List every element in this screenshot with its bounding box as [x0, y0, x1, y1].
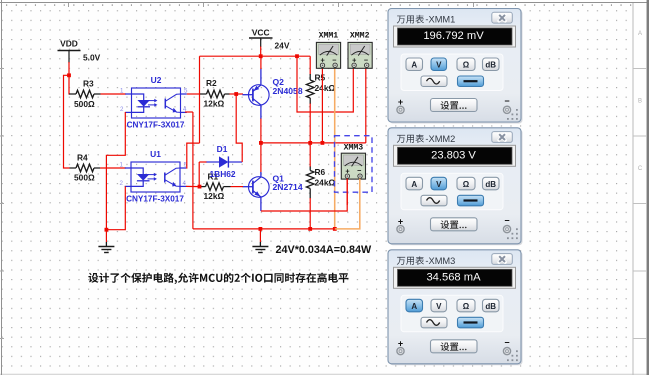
svg-text:12kΩ: 12kΩ [204, 191, 225, 201]
node ground rail center [259, 227, 263, 231]
svg-text:4: 4 [183, 180, 187, 187]
wire to ground symbol right [259, 229, 261, 242]
svg-text:CNY17F-3X017: CNY17F-3X017 [127, 120, 185, 129]
svg-text:XMM1: XMM1 [319, 32, 339, 41]
resistor R5 24kΩ [306, 56, 335, 143]
wire D1 cathode to Q2 base node [236, 94, 242, 162]
node VCC XMM2 branch [295, 54, 299, 58]
svg-text:+: + [398, 216, 403, 226]
wire U2 pin4 to ground rail [185, 111, 193, 113]
wire ground rail [193, 228, 335, 230]
svg-text:R6: R6 [315, 167, 326, 177]
svg-text:2: 2 [120, 180, 124, 187]
node Q2 emitter rail [259, 141, 263, 145]
svg-text:D1: D1 [217, 144, 228, 154]
svg-text:500Ω: 500Ω [74, 173, 95, 183]
svg-text:A: A [411, 302, 417, 311]
wire Q2 emitter to VCC rail [260, 69, 262, 85]
wire VDD branch to R4 [64, 75, 70, 168]
svg-text:VDD: VDD [60, 38, 78, 48]
svg-text:Ω: Ω [463, 61, 470, 70]
label annotation chinese [88, 273, 348, 285]
wire U2 pin2 to ground [106, 112, 125, 230]
svg-text:R2: R2 [206, 78, 217, 88]
svg-text:1: 1 [120, 162, 124, 169]
svg-text:V: V [436, 180, 442, 189]
svg-text:A: A [411, 61, 417, 70]
svg-text:V: V [436, 302, 442, 311]
svg-text:1: 1 [120, 88, 124, 95]
wire R1 to Q1 base [231, 186, 244, 188]
wire VCC stub [260, 47, 262, 57]
power VDD 5.0V [58, 38, 101, 63]
multimeter icon XMM3 [341, 143, 365, 179]
ground right [252, 242, 268, 253]
svg-text:dB: dB [485, 61, 496, 70]
resistor R4 500Ω [70, 153, 101, 183]
wire U2 pin5 to R2 [187, 93, 200, 95]
diode D1 1BH62 [206, 144, 242, 179]
svg-text:A: A [411, 180, 417, 189]
svg-text:−: − [504, 96, 509, 106]
resistor R6 24kΩ [306, 143, 335, 229]
multimeter panel XMM2 [388, 128, 523, 246]
wire XMM1 minus down (orange) [334, 68, 336, 230]
svg-text:XMM3: XMM3 [344, 143, 364, 152]
wire U1 pin4 to node [186, 185, 200, 187]
multimeter panel XMM1 [388, 9, 523, 124]
svg-text:U2: U2 [151, 75, 162, 85]
multimeter icon XMM1 [316, 32, 340, 69]
wire XMM3 plus to Q1 emitter [346, 179, 348, 206]
svg-text:24V*0.034A=0.84W: 24V*0.034A=0.84W [276, 244, 373, 256]
transistor Q2 2N4058 [242, 77, 302, 105]
svg-text:dB: dB [485, 180, 496, 189]
wire mid rail [261, 142, 366, 144]
svg-text:C: C [638, 166, 643, 172]
svg-text:34.568 mA: 34.568 mA [426, 271, 481, 283]
svg-text:196.792 mV: 196.792 mV [423, 30, 484, 42]
node VDD junction [67, 73, 71, 77]
svg-text:U1: U1 [150, 149, 161, 159]
resistor R2 12kΩ [200, 78, 230, 109]
svg-text:5.0V: 5.0V [83, 53, 101, 63]
wire Q2 collector down [260, 105, 262, 119]
svg-text:−: − [504, 337, 509, 347]
svg-text:+: + [398, 338, 403, 348]
multimeter icon XMM2 [348, 32, 372, 69]
node XMM1 plus rail [321, 141, 325, 145]
wire R4 to U1 pin1 [100, 167, 126, 169]
resistor R1 12kΩ [200, 172, 231, 202]
wire VDD down [68, 62, 70, 75]
svg-text:2N4058: 2N4058 [273, 86, 303, 96]
wire to ground symbol [105, 230, 107, 242]
node U1 pin4 R1 D1 [198, 185, 202, 189]
ground [98, 242, 114, 253]
svg-text:CNY17F-3X017: CNY17F-3X017 [126, 194, 184, 203]
svg-text:23.803 V: 23.803 V [431, 149, 476, 161]
svg-text:Ω: Ω [463, 302, 470, 311]
svg-text:VCC: VCC [252, 28, 270, 38]
wire U1 pin2 to ground [107, 186, 125, 229]
svg-text:24V: 24V [275, 41, 290, 51]
svg-text:500Ω: 500Ω [74, 99, 95, 109]
svg-text:2N2714: 2N2714 [273, 182, 303, 192]
svg-text:1BH62: 1BH62 [210, 169, 236, 179]
wire Q1 emitter to XMM3 plus [260, 197, 262, 211]
svg-text:24kΩ: 24kΩ [315, 178, 336, 188]
resistor R3 500Ω [69, 79, 101, 110]
node R5 R6 rail [308, 141, 312, 145]
node Q2 base [234, 92, 238, 96]
wire VDD to R3 [68, 75, 70, 94]
wire XMM3 minus orange [335, 179, 360, 229]
node R6 ground rail [308, 227, 312, 231]
svg-text:-XMM2: -XMM2 [425, 134, 455, 144]
svg-text:A: A [638, 31, 642, 37]
multimeter panel XMM3 [388, 250, 523, 365]
svg-text:XMM2: XMM2 [350, 32, 370, 41]
svg-text:2: 2 [120, 106, 124, 113]
wire R2 to Q2 base node [230, 93, 237, 95]
power VCC 24V [249, 28, 290, 51]
svg-text:12kΩ: 12kΩ [204, 98, 225, 108]
svg-text:-XMM1: -XMM1 [425, 15, 455, 25]
wire XMM2 minus down [365, 68, 367, 143]
wire VCC to XMM2 plus [297, 56, 353, 112]
wire XMM1 plus down [321, 68, 323, 143]
svg-text:Ω: Ω [463, 180, 470, 189]
svg-text:dB: dB [485, 302, 496, 311]
optocoupler U2 CNY17F-3X017 [120, 75, 188, 129]
svg-text:-XMM3: -XMM3 [425, 256, 455, 266]
svg-text:R3: R3 [83, 79, 94, 89]
selection box XMM3 [335, 136, 373, 193]
wire D1 anode to node [198, 162, 200, 187]
wire R3 to U2 pin1 [101, 93, 127, 95]
svg-text:+: + [398, 97, 403, 107]
sheet border ticks [6, 4, 631, 6]
svg-text:B: B [638, 99, 642, 105]
svg-text:V: V [436, 61, 442, 70]
node orange junction [333, 227, 337, 231]
svg-text:R4: R4 [77, 153, 88, 163]
wire VCC rail [200, 55, 311, 57]
wire VCC rail down left to U1 pin5 [199, 56, 201, 143]
node ground left [105, 228, 109, 232]
node VCC Q2 [259, 54, 263, 58]
optocoupler U1 CNY17F-3X017 [120, 149, 188, 203]
svg-text:−: − [504, 215, 509, 225]
wire node to Q2 base [236, 93, 243, 95]
wire Q1 collector up [260, 143, 262, 173]
transistor Q1 2N2714 [242, 173, 302, 197]
svg-text:R5: R5 [315, 73, 326, 83]
svg-text:24kΩ: 24kΩ [315, 83, 336, 93]
